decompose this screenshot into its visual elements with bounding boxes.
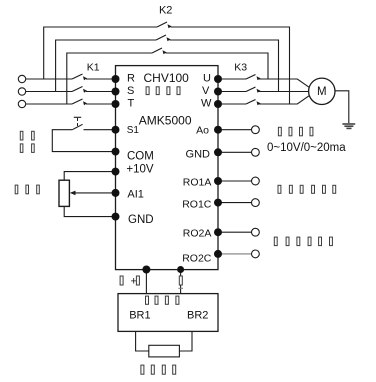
- svg-text:BR2: BR2: [187, 310, 208, 322]
- svg-text:W: W: [201, 97, 212, 109]
- svg-text:U: U: [203, 73, 211, 85]
- svg-text:COM: COM: [127, 151, 154, 163]
- svg-text:BR1: BR1: [129, 310, 150, 322]
- svg-text:S: S: [127, 85, 134, 97]
- svg-text:RO2A: RO2A: [183, 227, 212, 239]
- svg-text:R: R: [127, 73, 135, 85]
- svg-text:GND: GND: [186, 149, 211, 161]
- svg-text:GND: GND: [128, 214, 154, 226]
- svg-text:AMK5000: AMK5000: [139, 113, 192, 127]
- svg-text:V: V: [202, 85, 210, 97]
- svg-text:0~10V/0~20ma: 0~10V/0~20ma: [267, 142, 346, 154]
- svg-text:AI1: AI1: [127, 189, 144, 201]
- svg-text:T: T: [128, 97, 135, 109]
- svg-text:Ao: Ao: [196, 125, 209, 137]
- svg-text:S1: S1: [127, 125, 140, 136]
- svg-text:K1: K1: [87, 62, 100, 74]
- svg-text:K3: K3: [234, 62, 247, 74]
- svg-text:CHV100: CHV100: [144, 71, 190, 85]
- svg-text:K2: K2: [159, 4, 172, 16]
- svg-text:RO1A: RO1A: [183, 176, 212, 188]
- svg-text:RO2C: RO2C: [182, 252, 212, 264]
- svg-text:RO1C: RO1C: [182, 199, 212, 211]
- svg-text:M: M: [317, 86, 327, 98]
- svg-text:+10V: +10V: [126, 163, 154, 175]
